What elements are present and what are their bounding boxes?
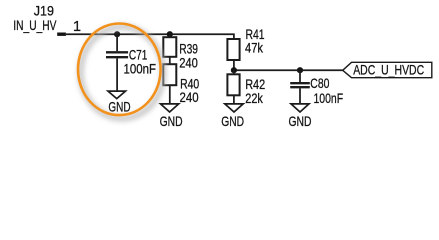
svg-text:47k: 47k — [245, 40, 264, 56]
svg-text:1: 1 — [73, 19, 81, 35]
junction: R41/R42 divider node — [231, 67, 237, 73]
connector J19 pin 1 stub — [57, 33, 66, 36]
svg-text:240: 240 — [180, 89, 199, 105]
resistor R40 — [163, 64, 176, 103]
ground symbol below C71 — [108, 91, 126, 99]
ground symbol below R40 — [161, 104, 179, 112]
svg-text:IN_U_HV: IN_U_HV — [13, 17, 57, 33]
svg-text:GND: GND — [160, 113, 183, 129]
svg-text:100nF: 100nF — [124, 61, 157, 77]
svg-text:C80: C80 — [310, 75, 329, 91]
capacitor C80 — [290, 70, 310, 103]
ground symbol below C80 — [291, 104, 309, 112]
wire: net IN_U_HV main horizontal run with corner down to R41 — [66, 34, 234, 39]
svg-text:GND: GND — [108, 98, 130, 114]
wire: net ADC_U_HVDC horizontal run — [234, 69, 343, 71]
ground symbol below R42 — [225, 104, 243, 112]
svg-text:GND: GND — [289, 113, 312, 129]
svg-text:240: 240 — [179, 54, 198, 70]
junction: C80 tap on ADC_U_HVDC — [297, 67, 303, 73]
junction: C71 tap on IN_U_HV — [114, 31, 120, 37]
svg-text:GND: GND — [221, 113, 244, 129]
annotation: orange highlight ellipse — [78, 24, 161, 116]
svg-text:J19: J19 — [34, 3, 54, 19]
annotation: highlight ellipse shadow — [81, 27, 164, 119]
junction: R39 tap on IN_U_HV — [167, 31, 173, 37]
resistor R39 — [163, 34, 176, 57]
svg-text:ADC_U_HVDC: ADC_U_HVDC — [353, 62, 424, 78]
global label flag ADC_U_HVDC — [343, 62, 432, 77]
resistor R41 — [227, 39, 239, 70]
wire: R39 to R40 — [169, 57, 171, 64]
resistor R42 — [227, 70, 239, 103]
svg-text:100nF: 100nF — [314, 90, 344, 106]
svg-text:22k: 22k — [245, 90, 263, 106]
capacitor C71 — [106, 34, 128, 90]
